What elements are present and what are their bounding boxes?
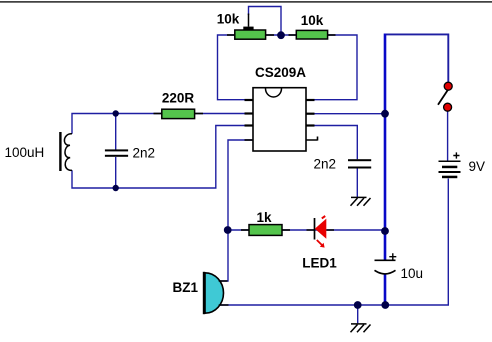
svg-text:2n2: 2n2 — [133, 146, 156, 161]
svg-text:10u: 10u — [401, 266, 424, 281]
svg-text:1k: 1k — [256, 210, 272, 225]
svg-text:2n2: 2n2 — [314, 157, 337, 172]
svg-text:LED1: LED1 — [302, 256, 337, 271]
svg-text:CS209A: CS209A — [255, 65, 306, 80]
svg-text:100uH: 100uH — [5, 145, 45, 160]
svg-text:10k: 10k — [301, 13, 324, 28]
svg-text:220R: 220R — [162, 91, 195, 106]
svg-text:BZ1: BZ1 — [172, 280, 198, 295]
svg-text:9V: 9V — [469, 159, 486, 174]
svg-text:10k: 10k — [217, 12, 240, 27]
